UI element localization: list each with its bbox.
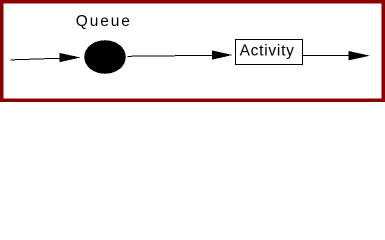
frame border (0, 0, 385, 102)
wire Activity to sink (303, 54, 351, 56)
arrowhead to sink (348, 51, 370, 60)
svg-text:Queue: Queue (76, 13, 132, 30)
arrowhead into Queue (59, 53, 80, 62)
wire Queue to Activity (128, 55, 215, 56)
activity box Activity (236, 40, 303, 65)
arrowhead into Activity (212, 50, 233, 59)
queue node Queue (ellipse) (84, 40, 126, 74)
wire source to Queue (11, 58, 62, 60)
svg-text:Activity: Activity (240, 43, 295, 60)
